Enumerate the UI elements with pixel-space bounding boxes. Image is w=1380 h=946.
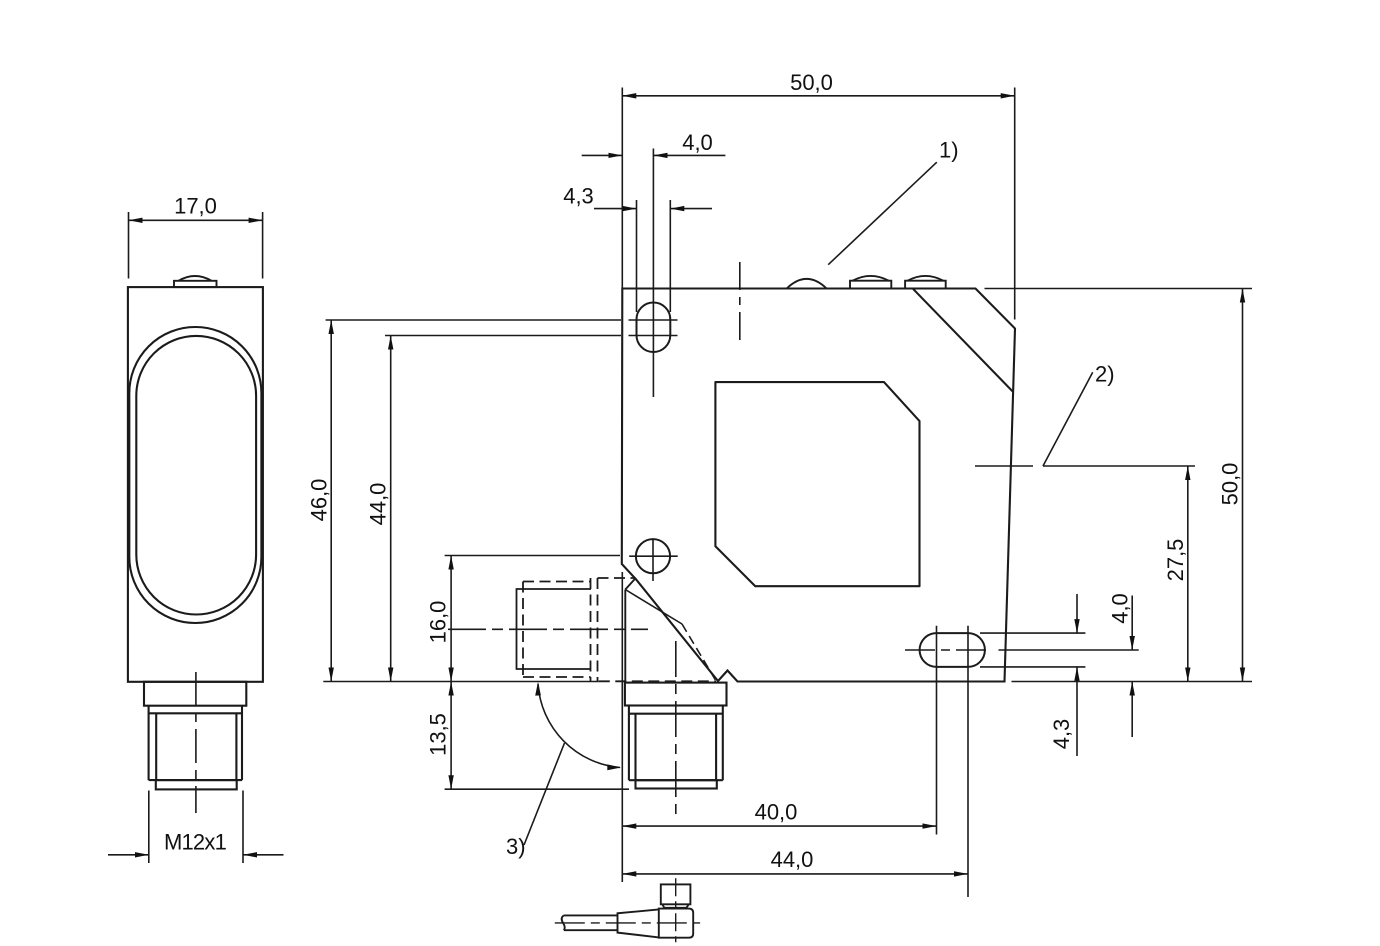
svg-text:4,3: 4,3	[563, 183, 594, 208]
dimension 4,0 top: arrows	[582, 154, 623, 156]
front view: chamfer face left edge	[624, 590, 626, 683]
callout leader 1)	[828, 162, 937, 265]
cable accessory icon: elbow body	[659, 909, 693, 938]
front view: upper mounting slot	[637, 303, 671, 353]
dimension 4,3 right: arrows	[1076, 594, 1078, 633]
rotation arc arrowhead up	[535, 682, 541, 696]
front view: chamfer inner edge hidden	[682, 624, 716, 680]
cable accessory icon: nut neck	[662, 904, 688, 908]
dimension 27,5 right: line with arrows	[1187, 466, 1189, 682]
hidden side connector: dashed flange box	[523, 578, 716, 681]
front view: chamfer facet edge	[625, 579, 635, 590]
dimension 4,3 top: arrows	[594, 208, 637, 210]
dimension 44,0 bottom: line with arrows	[622, 873, 968, 875]
dimension 4,3 top: extension lines	[637, 200, 671, 312]
svg-text:44,0: 44,0	[366, 483, 391, 526]
svg-text:2): 2)	[1095, 362, 1115, 387]
hidden side connector: visible barrel outline	[517, 589, 592, 669]
lower hole: center cross	[629, 540, 678, 581]
hidden side connector: centerline	[448, 628, 648, 630]
dimension 50,0 right: line with arrows	[1242, 289, 1244, 682]
front view: lens window octagon	[715, 382, 919, 586]
side view: M12x1 extension lines	[149, 791, 243, 864]
front view: body outline with chamfers	[622, 289, 1015, 682]
dimension 46,0: top extension line	[326, 319, 621, 321]
dimension 40,0: line with arrows	[622, 825, 936, 827]
side view: dimension 17,0 extension lines	[129, 212, 263, 279]
svg-text:1): 1)	[939, 138, 959, 163]
front view: transmitter axis centerline	[739, 262, 741, 340]
side view: M12x1 dimension arrows	[108, 854, 149, 856]
side view: lens window inner stadium	[136, 336, 256, 615]
svg-text:50,0: 50,0	[790, 70, 833, 95]
svg-text:M12x1: M12x1	[164, 830, 227, 855]
dimension 13,5: bottom extension line	[445, 788, 629, 790]
svg-text:40,0: 40,0	[755, 799, 798, 824]
cable accessory icon: cable lines	[562, 915, 618, 930]
front view: bottom connector centerline	[675, 641, 677, 818]
front view: chamfer inner edge solid	[625, 590, 682, 625]
rotation arc callout 3	[538, 684, 620, 768]
dimension 46,0: line with arrows	[330, 320, 332, 682]
svg-text:4,0: 4,0	[1108, 593, 1133, 624]
callout 2) receiver axis line	[975, 465, 1195, 467]
svg-text:3): 3)	[506, 834, 526, 859]
side view: M12 thread barrel	[149, 706, 242, 790]
svg-text:4,0: 4,0	[682, 130, 713, 155]
dimension 50,0 top: extension lines	[622, 88, 1014, 320]
front view: bottom M12 thread barrel	[629, 706, 723, 789]
front view: top-right chamfer edge	[913, 289, 1013, 392]
side view: dimension 17,0 line with arrows	[129, 219, 263, 221]
svg-text:17,0: 17,0	[174, 194, 217, 219]
svg-text:44,0: 44,0	[771, 847, 814, 872]
lower slot: extension lines right	[980, 633, 1139, 667]
front view: left edge extension line down	[621, 572, 623, 882]
front view: lower mounting hole circle	[636, 539, 670, 573]
callout leader 2)	[1043, 372, 1093, 466]
front view: top dome indicator 1	[787, 279, 827, 289]
cable accessory icon: strain relief boot	[618, 909, 659, 937]
front view: top button 2	[850, 276, 891, 289]
svg-text:50,0: 50,0	[1218, 463, 1243, 506]
svg-text:27,5: 27,5	[1163, 539, 1188, 582]
cable accessory icon: M12 nut	[661, 884, 691, 904]
side view: top button bump	[174, 276, 217, 287]
lower slot: vertical center ticks and extensions 40/44	[937, 626, 969, 897]
side view: sensor body rectangle	[128, 287, 263, 682]
front view: top button 3	[905, 276, 946, 289]
svg-text:13,5: 13,5	[426, 713, 451, 756]
callout leader 3)	[524, 743, 565, 845]
dimension 44,0: line with arrows	[390, 336, 392, 682]
dimension 44,0: top extension line	[385, 335, 621, 337]
lower slot: horizontal centerline	[905, 649, 987, 651]
dimension 50,0 top: line with arrows	[622, 95, 1014, 97]
side view: lens window outer stadium	[129, 327, 261, 623]
side view: connector flange	[144, 682, 246, 706]
svg-text:16,0: 16,0	[426, 601, 451, 644]
dimension 13,5: line with arrows	[450, 682, 452, 790]
cable accessory icon: vertical centerline	[675, 878, 677, 942]
svg-text:46,0: 46,0	[307, 479, 332, 522]
front view: lower-right mounting slot	[920, 633, 985, 667]
rotation arc arrowhead right	[607, 764, 621, 770]
svg-text:4,3: 4,3	[1049, 719, 1074, 750]
bottom edge extension to the left	[323, 681, 599, 683]
side view: connector vertical centerline	[195, 672, 197, 813]
dimension 16,0: line with arrows	[450, 556, 452, 682]
dimension 16,0: top extension line	[445, 555, 620, 557]
front view: upper slot center ticks	[629, 149, 678, 398]
dimension 50,0 right: extension lines	[985, 289, 1253, 682]
dimension 4,0 right: arrows	[1131, 596, 1133, 651]
cable accessory icon: horizontal centerline	[555, 922, 700, 924]
front view: bottom connector flange	[625, 683, 727, 706]
